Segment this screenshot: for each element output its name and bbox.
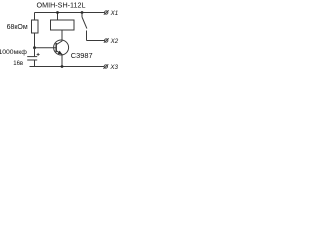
- wire base: [35, 47, 56, 49]
- plus sign polarity: [37, 53, 40, 56]
- resistor R1 68kOhm: [32, 13, 39, 48]
- wire top rail: [35, 12, 105, 14]
- svg-text:X3: X3: [109, 64, 118, 71]
- transistor Q1 C3987: [54, 40, 69, 67]
- relay coil K1: [51, 13, 75, 41]
- terminal X2: [104, 38, 109, 42]
- svg-text:68кОм: 68кОм: [7, 24, 28, 31]
- svg-text:16в: 16в: [13, 61, 23, 67]
- junction dot coil-rail: [56, 11, 59, 14]
- relay contact switch S1: [82, 13, 87, 41]
- terminal X1: [104, 10, 109, 14]
- emitter arrow: [58, 51, 63, 55]
- capacitor C1 1000uF: [27, 48, 37, 67]
- svg-text:1000мкф: 1000мкф: [0, 49, 27, 56]
- junction dot emitter-rail: [61, 65, 64, 68]
- svg-text:C3987: C3987: [71, 51, 93, 60]
- junction dot switch-rail: [81, 11, 84, 14]
- svg-text:X2: X2: [110, 38, 119, 45]
- terminal X3: [103, 64, 108, 68]
- svg-text:OMIH-SH-112L: OMIH-SH-112L: [37, 1, 86, 10]
- svg-text:X1: X1: [110, 10, 119, 17]
- wire bottom rail: [30, 66, 105, 68]
- wire switch to X2: [87, 40, 105, 42]
- junction dot base-cap: [33, 46, 36, 49]
